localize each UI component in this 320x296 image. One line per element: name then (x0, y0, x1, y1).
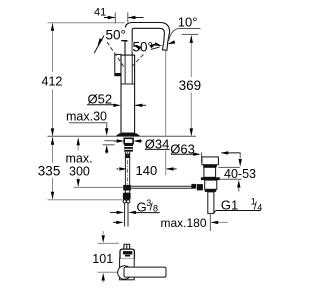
svg-text:50°: 50° (133, 40, 153, 55)
svg-text:50°: 50° (106, 27, 126, 42)
column joint line (121, 83, 135, 85)
dimension 412 vertical line (52, 23, 54, 72)
drain body (205, 180, 217, 189)
svg-text:412: 412 (42, 75, 63, 89)
dimension max.180 (113, 221, 116, 223)
drain flange band (201, 177, 220, 180)
wire deck line (48, 135, 197, 137)
mounting shank (124, 138, 133, 143)
drain: Ø63 left extension (201, 152, 203, 162)
drain centerline extension (209, 213, 211, 231)
hose end fitting (123, 193, 131, 200)
label 50deg no.1 (106, 28, 129, 41)
dimension max.30 arrows (106, 127, 108, 131)
threaded rod segment below shank (125, 154, 130, 158)
threaded section (124, 144, 133, 152)
faucet column (121, 55, 135, 133)
pipe centerline below deck (127, 152, 129, 185)
wire top reference extension line y=22.8 (48, 22, 126, 24)
dimension 369 vertical line (190, 35, 192, 77)
supply pipe below shank (124, 152, 126, 194)
svg-text:335: 335 (38, 163, 61, 178)
50deg no.1 right arrowhead (122, 39, 127, 42)
svg-text:Ø52: Ø52 (88, 91, 113, 106)
wire 10deg underline (178, 28, 201, 30)
drain band 1 (203, 165, 217, 168)
svg-text:max.30: max.30 (66, 110, 107, 124)
dimension 41 extension line a (114, 13, 116, 24)
wire spout outlet extension down to deck (165, 51, 167, 136)
dimension G3/8 arrows (110, 211, 116, 213)
dimension 40-53 (218, 166, 239, 168)
tube silhouette inside column (124, 56, 126, 84)
svg-text:40-53: 40-53 (224, 167, 256, 181)
svg-text:41: 41 (94, 6, 106, 18)
dimension 335 vertical line (52, 137, 54, 163)
dimension max.300 vertical line (77, 139, 79, 151)
drain boss (197, 184, 203, 190)
dimension Ø34 arrows at shank (114, 140, 117, 142)
drain band 2 (205, 189, 217, 192)
svg-text:300: 300 (69, 164, 90, 178)
drain knob (191, 184, 196, 189)
supply pipe lower section (124, 203, 126, 226)
svg-text:369: 369 (179, 78, 202, 93)
bottom view: handle body (120, 258, 135, 280)
wire deck underside stub 1 (105, 140, 114, 142)
drain neck (204, 167, 216, 177)
bottom view: lever bar (124, 267, 166, 277)
bottom view: cartridge circle (118, 266, 132, 280)
label Ø34 underlined (145, 138, 170, 149)
svg-text:101: 101 (92, 252, 113, 266)
faucet centerline above deck (127, 41, 129, 133)
bottom view: serrated cap (120, 249, 134, 258)
spout tube (125, 23, 170, 56)
pop-up rod clamp (123, 185, 131, 191)
svg-text:10°: 10° (178, 14, 198, 29)
50deg no.2 right arrowhead (150, 42, 158, 49)
bottom view: dimension 101 (98, 242, 120, 244)
wire deck underside stub 2 (103, 144, 115, 146)
wire 369 top extension line (182, 33, 199, 35)
dimension 41 extension line b (127, 13, 129, 23)
10deg angular arrows at outlet (151, 47, 160, 50)
label Ø63 with leader (170, 143, 193, 154)
drain tailpipe (208, 192, 214, 214)
lever handle (side view) (115, 54, 121, 75)
drain plug (202, 157, 219, 165)
50deg no.1 left arm with arrowhead (94, 36, 104, 54)
dashed swivel line C (130, 45, 152, 68)
bottom view: pin (123, 244, 125, 249)
wire max.300 bottom extension / pop-up rod left line (74, 186, 123, 188)
pop-up rod to drain (131, 185, 192, 187)
dimension 140 (117, 168, 119, 170)
faucet base plate (116, 133, 141, 136)
wire outlet extension below deck (165, 151, 167, 176)
wire 10deg S-leader (169, 29, 178, 42)
dashed swivel line B (107, 42, 124, 67)
wire 335 bottom extension (48, 199, 123, 201)
dimension Ø63 right arrow (222, 152, 241, 154)
50deg no.2 left arrowhead (133, 44, 141, 50)
label 50deg no.2 (133, 42, 155, 53)
wire max.30 leader (69, 123, 107, 127)
svg-text:140: 140 (136, 163, 158, 178)
dimension 41 arrows and tails (104, 16, 144, 19)
svg-text:8: 8 (153, 203, 158, 213)
svg-text:max.180: max.180 (161, 216, 207, 230)
